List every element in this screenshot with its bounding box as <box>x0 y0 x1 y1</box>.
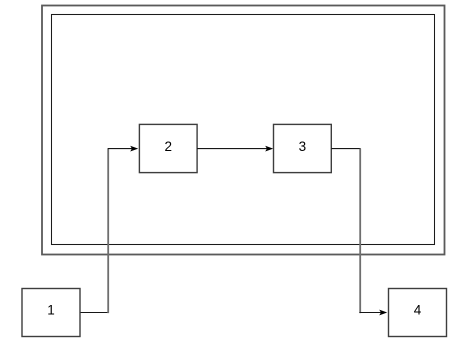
block 2 <box>139 124 197 172</box>
wire block3 to block4 horizontal segment <box>331 148 360 150</box>
svg-text:4: 4 <box>414 303 422 318</box>
arrowhead into block2 <box>130 146 138 152</box>
block 4 <box>389 289 447 337</box>
arrowhead into block3 <box>265 146 273 152</box>
wire block2 to block3 <box>197 148 268 150</box>
wire block1 to block2 horizontal segment <box>80 312 109 314</box>
wire into block2 horizontal segment <box>108 148 133 150</box>
wire block1 to block2 vertical segment <box>107 149 109 314</box>
wire block3 to block4 vertical segment <box>359 149 361 314</box>
svg-text:2: 2 <box>164 139 172 154</box>
arrowhead into block4 <box>379 310 387 316</box>
svg-text:1: 1 <box>47 303 55 318</box>
block 1 <box>22 289 80 337</box>
block 3 <box>274 124 332 172</box>
wire into block4 horizontal segment <box>359 312 382 314</box>
outer frame <box>42 6 445 255</box>
inner frame <box>52 15 435 245</box>
svg-text:3: 3 <box>299 139 307 154</box>
